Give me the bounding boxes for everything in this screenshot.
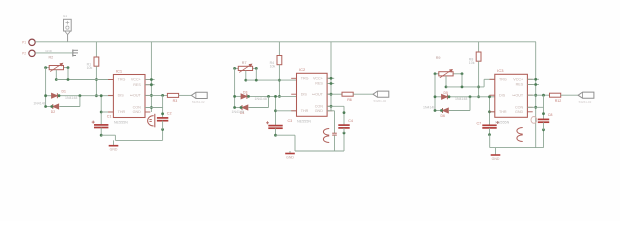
wire up	[469, 97, 471, 111]
wire wiper to TRG	[246, 79, 297, 81]
capacitor C5 small	[332, 132, 337, 134]
svg-text:1N4148: 1N4148	[255, 97, 267, 101]
wire	[478, 61, 480, 97]
svg-text:D1: D1	[62, 90, 66, 94]
pin stub	[145, 94, 150, 96]
wire up	[79, 96, 81, 107]
resistor R4 (vertical)	[277, 56, 282, 65]
trimmer R9 wiper	[445, 76, 447, 87]
svg-text:53261-02: 53261-02	[192, 100, 205, 104]
svg-text:P2: P2	[22, 52, 26, 56]
wire cap to bottom	[100, 128, 102, 136]
svg-text:R7: R7	[242, 61, 247, 65]
connector plug	[578, 92, 594, 98]
svg-text:1N4148: 1N4148	[423, 105, 435, 109]
svg-text:GND: GND	[315, 109, 324, 113]
wire THR column	[100, 96, 102, 125]
svg-text:TRG: TRG	[118, 78, 126, 82]
svg-text:R12: R12	[555, 99, 562, 103]
trimmer R2 wiper	[55, 70, 57, 80]
svg-text:G1: G1	[63, 14, 67, 18]
svg-text:C1: C1	[107, 115, 112, 119]
trimmer R5	[235, 67, 239, 69]
wire DIS row	[46, 95, 52, 97]
svg-text:DIS: DIS	[301, 92, 308, 96]
curved plate glyph	[148, 116, 154, 126]
svg-text:10k: 10k	[270, 65, 276, 69]
svg-text:C8: C8	[548, 113, 553, 117]
pin stub	[145, 107, 150, 109]
svg-text:IC2: IC2	[299, 67, 306, 72]
wire CON	[145, 107, 163, 109]
trimmer R5 wiper	[245, 71, 247, 81]
resistor R1 (vertical)	[94, 57, 99, 66]
diode D3	[241, 94, 247, 99]
pin stub	[490, 78, 495, 80]
IC IC3 NE555	[495, 74, 528, 117]
wire DIS row	[435, 96, 442, 98]
capacitor C3 (polarized)	[268, 125, 282, 127]
svg-text:GND: GND	[286, 155, 294, 159]
resistor R8 (vertical)	[476, 52, 481, 61]
svg-text:D3: D3	[243, 90, 247, 94]
wire THR column	[275, 96, 277, 125]
svg-text:TRG: TRG	[301, 77, 309, 81]
wire VCC column	[145, 79, 155, 81]
pin stub	[291, 110, 296, 112]
svg-text:GND: GND	[110, 148, 118, 152]
pin stub	[527, 106, 532, 108]
pad P1	[29, 39, 35, 45]
wire DIS row	[235, 95, 241, 97]
svg-text:THR: THR	[301, 109, 309, 113]
wire up	[268, 96, 270, 107]
svg-text:CON: CON	[315, 105, 324, 109]
svg-text:NE555N: NE555N	[495, 120, 509, 124]
wire CON	[327, 105, 344, 107]
wire rail to R1a	[95, 42, 97, 57]
wire THR pin	[276, 110, 297, 112]
wire GND pin	[327, 110, 334, 112]
svg-text:C3: C3	[288, 119, 293, 123]
capacitor C2	[157, 117, 168, 119]
wire THR pin	[101, 111, 113, 113]
connector plug	[191, 92, 207, 98]
diode D2	[53, 104, 59, 109]
svg-text:NE555N: NE555N	[297, 119, 311, 123]
ground symbol	[285, 153, 295, 155]
diode D4	[242, 105, 248, 110]
wire OUT	[145, 94, 167, 96]
svg-text:NE555N: NE555N	[114, 121, 128, 125]
svg-text:GND: GND	[133, 110, 142, 114]
wire trimmer-left down	[434, 74, 436, 111]
wire bottom gnd path	[276, 134, 296, 136]
svg-text:R6: R6	[347, 98, 352, 102]
capacitor C8	[538, 118, 549, 120]
svg-text:↦OUT: ↦OUT	[130, 94, 142, 98]
wire THR pin	[490, 111, 495, 113]
svg-text:1N4148: 1N4148	[65, 96, 77, 100]
resistor R6 (horizontal)	[342, 92, 353, 96]
resistor R12 (horizontal)	[550, 93, 561, 97]
diode D1	[52, 93, 58, 98]
wire bottom gnd path	[101, 134, 115, 136]
wire trimmer-right down	[461, 74, 463, 87]
pin stub	[490, 111, 495, 113]
svg-text:R3: R3	[173, 99, 178, 103]
IC IC2 NE555	[297, 73, 328, 116]
svg-text:D2: D2	[51, 110, 55, 114]
pin stub	[327, 105, 332, 107]
top rail wire	[35, 41, 536, 43]
straight plate glyph	[154, 114, 156, 128]
wire trimmer-left down	[45, 68, 47, 107]
svg-text:RES: RES	[315, 82, 323, 86]
wire OUT	[527, 94, 549, 96]
wire trimmer-left down	[234, 68, 236, 107]
pin stub	[145, 111, 150, 113]
wire trimmer-right down	[255, 68, 257, 80]
svg-text:RES: RES	[516, 83, 524, 87]
pin stub	[527, 94, 532, 96]
pin stub	[327, 93, 332, 95]
pin stub	[527, 111, 532, 113]
svg-text:CON: CON	[133, 106, 142, 110]
pin stub	[490, 94, 495, 96]
svg-text:53261-02: 53261-02	[579, 100, 592, 104]
resistor R3 (horizontal)	[167, 93, 178, 97]
gnd feed wire	[35, 52, 72, 54]
svg-text:VCC+: VCC+	[513, 78, 523, 82]
svg-text:1N4148: 1N4148	[232, 110, 244, 114]
wire OUT	[327, 93, 342, 95]
svg-text:DIS: DIS	[499, 93, 506, 97]
svg-text:GND: GND	[45, 49, 53, 53]
pin stub	[327, 110, 332, 112]
pad P2	[29, 50, 35, 56]
svg-text:THR: THR	[118, 110, 126, 114]
pin stub	[108, 111, 113, 113]
svg-text:1N4148: 1N4148	[455, 97, 467, 101]
pin stub	[145, 79, 150, 81]
wire THR column	[489, 97, 491, 126]
wire VCC column	[327, 77, 334, 79]
svg-text:R9: R9	[436, 56, 441, 60]
svg-text:GND: GND	[492, 157, 500, 161]
wire wiper to TRG	[446, 86, 484, 88]
svg-text:IC1: IC1	[116, 68, 123, 73]
curved plate glyph	[323, 129, 329, 136]
wire	[278, 65, 280, 97]
pin stub	[527, 78, 532, 80]
svg-text:VCC+: VCC+	[131, 78, 141, 82]
ground symbol	[491, 154, 501, 156]
svg-text:53261-02: 53261-02	[374, 99, 387, 103]
wire rail to R2a	[278, 42, 280, 56]
wire	[95, 66, 97, 96]
pin stub	[291, 93, 296, 95]
wire to ground	[289, 151, 291, 154]
bracket connector	[72, 50, 74, 57]
svg-text:10k: 10k	[87, 66, 93, 70]
wire wiper to TRG	[56, 79, 113, 81]
svg-text:C2: C2	[167, 112, 172, 116]
svg-text:VCC+: VCC+	[313, 77, 323, 81]
svg-text:↦OUT: ↦OUT	[512, 93, 524, 97]
svg-text:GND: GND	[515, 110, 524, 114]
wire bottom gnd path	[489, 134, 491, 136]
battery pin	[67, 35, 69, 42]
wire VCC column	[527, 78, 539, 80]
wire rail to R3a	[478, 42, 480, 52]
svg-text:R2: R2	[49, 55, 54, 59]
ground symbol	[109, 145, 119, 147]
svg-text:1N4148: 1N4148	[33, 101, 45, 105]
connector plug	[373, 91, 389, 97]
svg-text:CON: CON	[515, 106, 524, 110]
svg-text:10k: 10k	[469, 61, 475, 65]
pin stub	[108, 79, 113, 81]
svg-text:↦OUT: ↦OUT	[312, 92, 324, 96]
curved plate glyph	[517, 128, 523, 135]
pin stub	[527, 84, 532, 86]
trimmer R9	[435, 73, 439, 75]
trimmer R2	[46, 67, 50, 69]
capacitor C1 (polarized)	[94, 124, 108, 126]
svg-text:RES: RES	[133, 83, 141, 87]
svg-text:P1: P1	[22, 41, 26, 45]
wire to ground	[113, 140, 115, 145]
capacitor C7 (polarized)	[482, 124, 496, 126]
diode D5	[442, 94, 448, 99]
pin stub	[108, 94, 113, 96]
svg-text:IC3: IC3	[497, 68, 504, 73]
svg-text:TRG: TRG	[499, 78, 507, 82]
diode D6	[443, 108, 449, 113]
svg-text:D5: D5	[444, 91, 448, 95]
svg-text:D6: D6	[441, 114, 445, 118]
pin stub	[327, 83, 332, 85]
wire lower diode row	[46, 106, 53, 108]
svg-text:DIS: DIS	[118, 94, 125, 98]
svg-text:C4: C4	[348, 119, 353, 123]
wire lower diode row	[235, 107, 242, 109]
IC IC1 NE555	[113, 75, 145, 118]
pin stub	[327, 77, 332, 79]
capacitor C4	[338, 124, 349, 126]
svg-text:C7: C7	[477, 122, 482, 126]
wire lower diode row	[435, 110, 443, 112]
svg-text:THR: THR	[499, 110, 507, 114]
pin stub	[145, 84, 150, 86]
pin stub	[291, 77, 296, 79]
wire to ground	[495, 148, 497, 155]
wire cap to bottom	[275, 128, 277, 135]
wire trimmer-right down	[67, 68, 69, 80]
battery symbol	[64, 19, 72, 31]
wire cap to bottom	[489, 128, 491, 135]
wire CON	[527, 106, 543, 108]
